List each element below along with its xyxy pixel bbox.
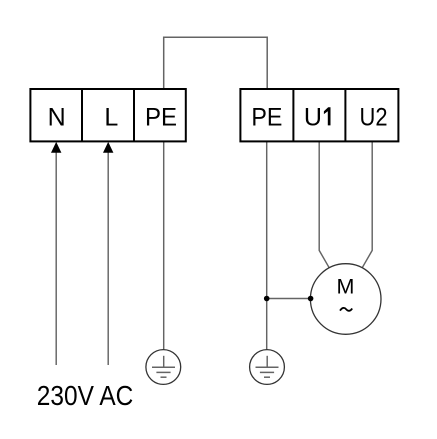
wire N supply line: [55, 151, 57, 365]
wire L supply line: [107, 151, 109, 365]
wire right PE down to earth: [266, 142, 268, 351]
svg-text:U2: U2: [360, 103, 388, 131]
arrowhead into L: [103, 142, 113, 153]
junction dot at motor edge: [308, 296, 314, 302]
wire U1 to motor: [319, 142, 330, 269]
earth symbol left PE: [146, 350, 181, 385]
svg-text:L: L: [104, 103, 118, 131]
svg-text:230V AC: 230V AC: [37, 380, 134, 411]
svg-text:PE: PE: [251, 103, 282, 131]
wire PE bridge between terminal blocks: [164, 37, 268, 89]
wire left PE down to earth: [163, 142, 165, 351]
wire PE branch to motor: [267, 298, 314, 300]
earth symbol right PE: [250, 350, 285, 385]
terminal block PE U1 U2: [240, 89, 398, 141]
junction dot on PE wire: [264, 296, 270, 302]
label ~: [340, 308, 352, 311]
svg-text:N: N: [48, 103, 66, 131]
terminal block N L PE: [30, 89, 185, 141]
svg-text:M: M: [337, 275, 355, 299]
motor M1 circle: [310, 264, 381, 335]
svg-text:PE: PE: [145, 103, 177, 131]
arrowhead into N: [51, 142, 61, 153]
wire U2 to motor: [362, 142, 373, 269]
svg-text:U: U: [304, 103, 322, 131]
